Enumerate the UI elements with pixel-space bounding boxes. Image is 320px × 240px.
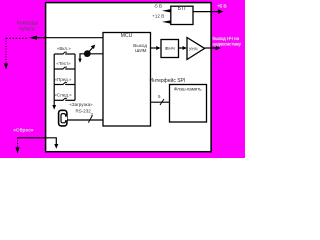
svg-text:«Загрузка»: «Загрузка» xyxy=(69,102,93,107)
connector X1 RS-232 xyxy=(59,110,67,126)
flash memory U4 xyxy=(170,85,207,123)
wire: +5V external xyxy=(193,11,220,13)
wire: reset line xyxy=(18,138,57,145)
svg-text:УНЧ: УНЧ xyxy=(189,46,198,51)
bus slash RS-232 xyxy=(88,115,92,122)
svg-text:«Сброс»: «Сброс» xyxy=(13,128,34,133)
amplifier U3 УНЧ xyxy=(187,38,205,60)
svg-text:+12 В: +12 В xyxy=(152,14,164,19)
arrowhead down (off page) xyxy=(15,147,19,153)
svg-text:«Пред.»: «Пред.» xyxy=(54,77,72,82)
device enclosure frame xyxy=(46,3,212,152)
wire: -5V output xyxy=(162,9,171,12)
wire: SPI bus MCU to flash xyxy=(151,101,170,103)
svg-text:+5 В: +5 В xyxy=(217,4,227,9)
wire: dashed continuation vertical xyxy=(5,38,7,63)
keypad right rail xyxy=(74,54,76,100)
svg-text:«Тест»: «Тест» xyxy=(56,61,71,66)
low-pass filter U2 ФНЧ xyxy=(161,40,179,58)
svg-text:«След.»: «След.» xyxy=(54,93,72,98)
arrowhead down inside frame xyxy=(54,144,58,149)
wire: dashed continuation horizontal xyxy=(6,37,29,39)
keypad left rail xyxy=(53,54,55,106)
wire: +12V output xyxy=(162,20,171,23)
svg-text:ФНЧ: ФНЧ xyxy=(165,46,175,51)
potentiometer body xyxy=(84,50,91,57)
svg-text:Интерфейс SPI: Интерфейс SPI xyxy=(150,77,186,84)
MCU U1 xyxy=(103,33,151,127)
svg-text:Выход НЧ на: Выход НЧ на xyxy=(213,36,240,41)
svg-text:MCU: MCU xyxy=(121,33,133,39)
svg-text:аудиосистему: аудиосистему xyxy=(213,42,242,47)
svg-text:Флэш-память: Флэш-память xyxy=(174,86,202,91)
wire: LPF to amplifier xyxy=(179,47,184,49)
arrowhead at rail bottom xyxy=(52,105,56,110)
wire: dotted reset continuation xyxy=(17,138,19,147)
svg-text:БП: БП xyxy=(178,6,186,12)
arrowhead left (exit to remote) xyxy=(29,36,37,40)
wire: audio output xyxy=(205,47,217,49)
potentiometer (volume) wire xyxy=(80,54,103,62)
power supply U5 БП xyxy=(171,6,193,24)
svg-text:«Вкл.»: «Вкл.» xyxy=(57,46,71,51)
bus slash SPI xyxy=(160,99,164,105)
arrowhead down (off page) xyxy=(4,63,8,69)
svg-text:RS-232: RS-232 xyxy=(76,109,92,114)
svg-text:-5 В: -5 В xyxy=(154,4,162,9)
wire: MCU left port to frame exit xyxy=(36,37,103,39)
potentiometer wiper arrow xyxy=(85,47,93,56)
arrowhead down at pot branch xyxy=(78,59,81,63)
wire: PWM out MCU to LPF xyxy=(151,47,158,49)
svg-text:ШИМ: ШИМ xyxy=(135,48,147,53)
wire: connector to MCU xyxy=(67,119,103,121)
svg-text:пульта: пульта xyxy=(19,26,34,32)
